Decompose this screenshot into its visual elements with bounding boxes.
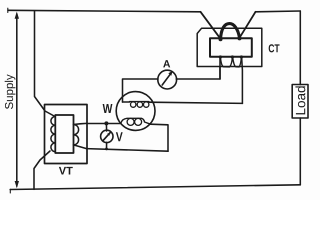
wire top rail right [256,10,301,13]
CT primary right diagonal [240,12,256,38]
node CT primary left junction [219,37,223,41]
wire VT primary bottom to rail [34,151,50,189]
VT secondary winding [74,124,79,144]
wire V stub top [105,124,107,132]
wire VT secondary bottom lead [74,145,87,149]
W pressure coil [121,118,151,125]
A needle [162,71,172,85]
supply arrow [15,12,19,189]
wire voltage top (VT to W pressure coil to right corner) [87,123,121,125]
wire W current lead from A [123,79,159,102]
wire CT secondary right lead [241,57,244,103]
node tick bottom-left [9,189,11,193]
W label [103,104,113,113]
wire top rail left [8,10,201,12]
VT label [59,167,73,175]
CT primary left diagonal [201,12,221,39]
V label [116,132,123,141]
wire V stub bottom [106,142,108,149]
CT label [269,44,280,52]
load box [292,85,308,119]
wattmeter W circle [116,92,155,131]
wire load to bottom rail [299,118,301,185]
wire voltage bottom return [87,149,169,152]
node CT secondary terminal 2 [231,55,234,58]
wire CT secondary left lead [219,57,221,79]
node CT primary right junction [238,36,242,40]
A label [163,60,170,67]
transformer VT core [55,115,73,153]
W current coil [123,102,149,108]
wire CT right lead to W current coil [149,102,243,103]
VT primary winding [51,117,55,152]
CT secondary loop 1 [220,57,232,67]
node tick top-left [7,8,9,12]
CT core [210,38,252,57]
V needle [103,132,110,140]
CT outer box [197,28,262,66]
wire A to CT left lead [176,67,220,80]
wire bottom rail [10,185,300,190]
load label [295,86,305,114]
ammeter A [158,70,177,89]
node junction V top [104,121,108,125]
wire voltage right vertical [151,124,169,151]
supply label [5,74,16,109]
transformer VT outer box [45,105,88,164]
wire left vertical to VT primary [35,11,56,117]
CT primary turn [221,24,240,39]
voltmeter V [101,130,113,142]
node CT secondary terminal 1 [219,55,222,58]
wire VT secondary top lead [74,123,87,124]
node junction V bottom [105,148,108,151]
wire right drop to load [299,11,301,85]
CT secondary loop 2 [233,57,242,67]
node CT secondary terminal 3 [240,55,243,58]
